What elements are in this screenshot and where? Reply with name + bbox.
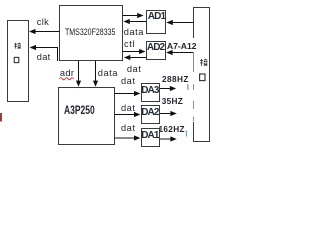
right interface block: [193, 7, 210, 142]
FPGA block A3P250: [58, 87, 116, 145]
wire 162HZ out (DA1): [160, 136, 177, 141]
wire dat (A3P250 to DA3): [115, 91, 141, 96]
wire dat (A3P250 to DA1): [115, 135, 141, 140]
wire dat (A3P/TMS corner to left interface): [30, 45, 58, 61]
label TMS320F28335: [65, 27, 115, 36]
label AD2: [147, 43, 164, 53]
wire dat (AD2 to TMS): [124, 55, 146, 60]
label DA2: [141, 108, 158, 118]
ADC block AD1: [146, 10, 166, 34]
net label data (right top): [124, 28, 144, 37]
net label adr: [60, 69, 74, 78]
label A3P250: [64, 105, 95, 117]
DAC block DA3: [141, 83, 161, 103]
net label data (bottom): [98, 69, 118, 78]
blue dash artifact upper: [187, 84, 188, 90]
net label 288HZ: [162, 76, 189, 84]
wire data in (AD1 to TMS): [123, 19, 146, 24]
net label dat (left): [37, 53, 51, 62]
net label clk: [37, 18, 49, 27]
wire analog in (right interface to AD1): [166, 20, 193, 25]
glyph 口 (right interface): [200, 74, 205, 81]
wire ctl (TMS to AD2): [123, 49, 146, 54]
glyph 口 (left interface): [14, 57, 19, 62]
net label dat (AD2 return): [127, 65, 141, 74]
wire data out (TMS to AD1): [123, 13, 144, 18]
blue dash artifact lower: [186, 131, 187, 137]
glyph 接 (right interface): [200, 59, 207, 66]
DSP block U1 TMS320F28335: [59, 5, 123, 61]
net label A7-A12: [167, 42, 197, 51]
wire dat (A3P250 to DA2): [115, 112, 141, 117]
net label 35HZ: [162, 98, 183, 106]
label AD1: [148, 12, 165, 22]
red edge artifact: [0, 113, 2, 122]
net label dat (DA2): [121, 104, 135, 113]
wire 35HZ out (DA2): [160, 111, 177, 116]
DAC block DA1: [141, 128, 161, 148]
spellcheck squiggle under adr: [60, 78, 74, 80]
wire data (TMS down to A3P250): [93, 61, 98, 87]
wire adr (TMS down to A3P250): [76, 61, 81, 87]
wire 288HZ out (DA3): [160, 86, 176, 91]
net label 162HZ: [159, 126, 185, 134]
net label dat (DA3): [121, 77, 135, 86]
net label dat (DA1): [121, 124, 135, 133]
label DA1: [141, 131, 158, 141]
ADC block AD2: [146, 41, 167, 61]
glyph 接 (left interface): [14, 43, 21, 49]
label DA3: [141, 86, 158, 96]
wire A7-A12 (right interface to AD2): [166, 50, 193, 55]
left interface block: [7, 20, 29, 102]
wire clk (TMS to left interface): [29, 29, 60, 34]
net label ctl: [124, 40, 135, 49]
DAC block DA2: [141, 105, 161, 125]
